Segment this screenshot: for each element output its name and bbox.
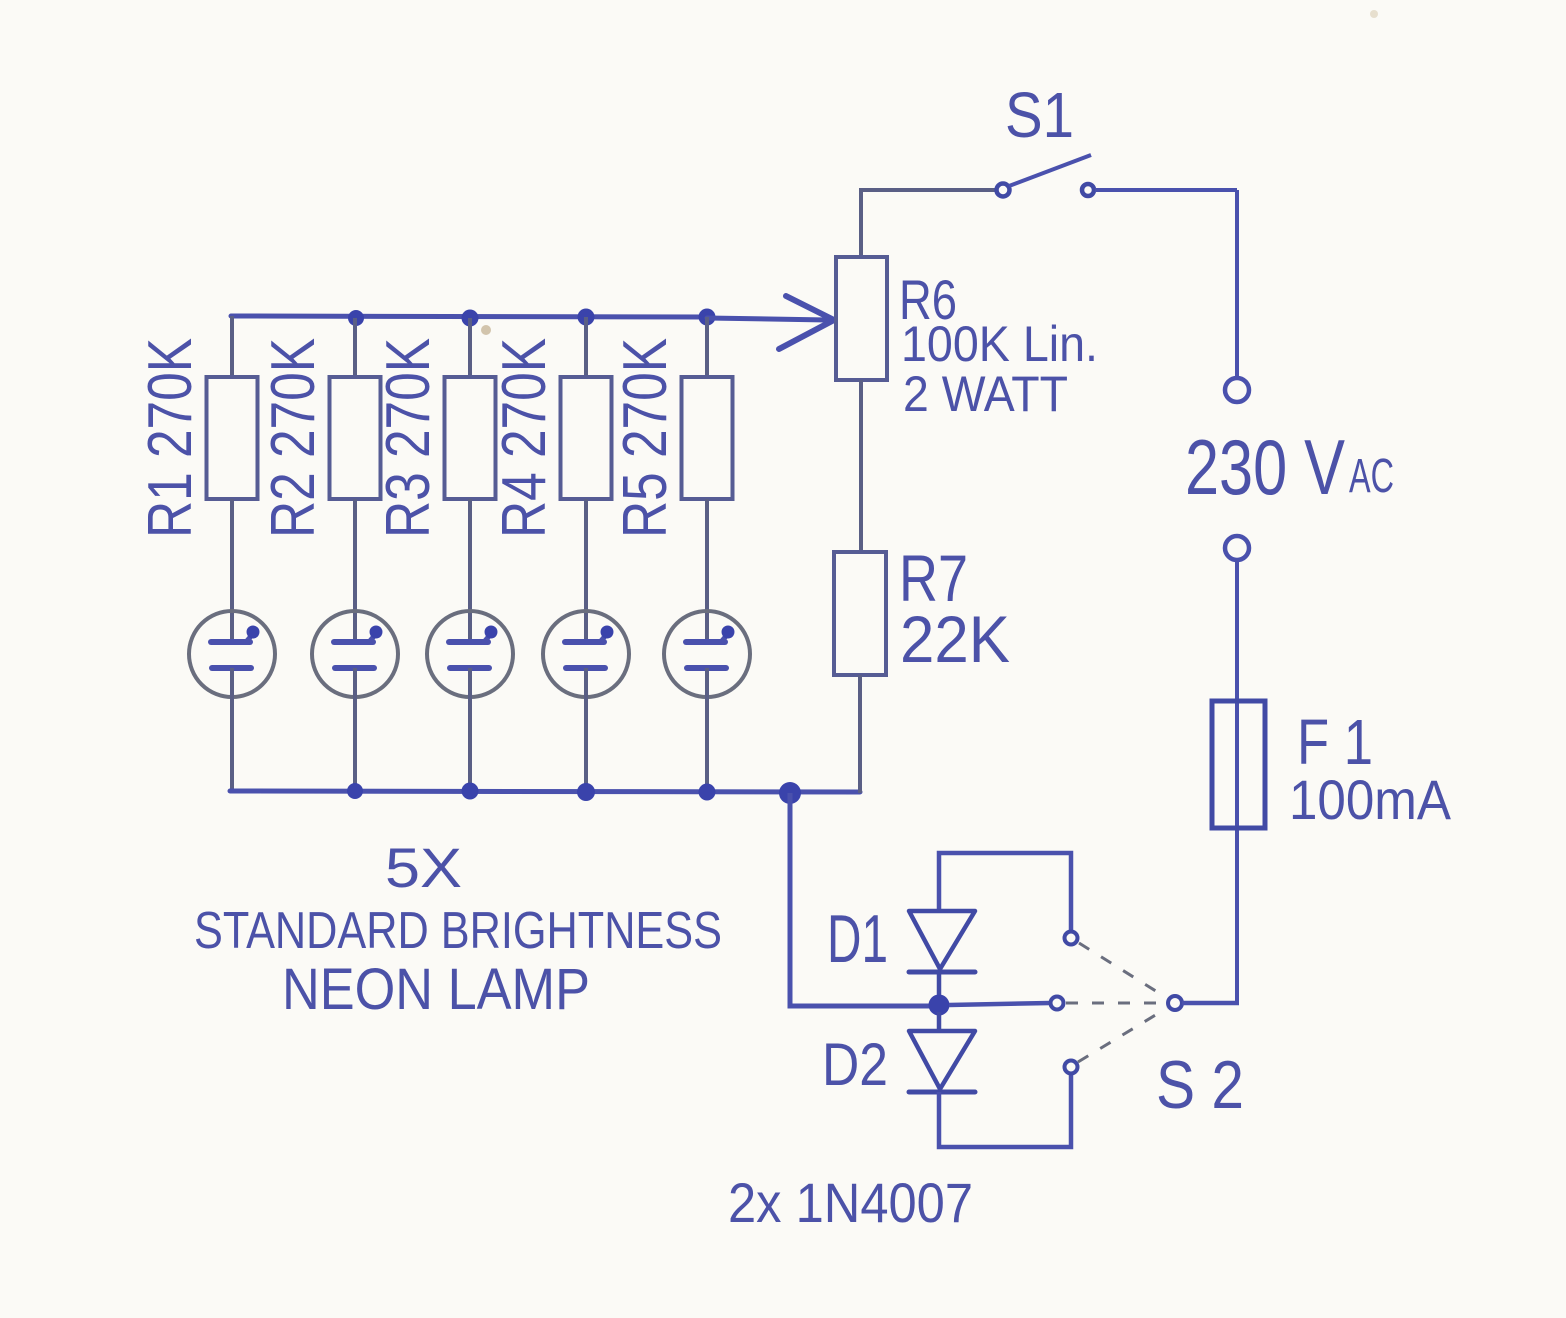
- node bus-branch: [779, 782, 801, 804]
- paper speck: [481, 325, 491, 335]
- node bus-R4: [578, 309, 595, 326]
- svg-text:R4 270K: R4 270K: [490, 338, 559, 538]
- resistor R3: [445, 377, 496, 499]
- wire lamp 2 to bottom bus: [353, 668, 357, 791]
- svg-text:S 2: S 2: [1156, 1047, 1244, 1123]
- fuse F1 body: [1212, 701, 1265, 828]
- diode D1: [909, 911, 975, 1000]
- node bus-lamp4: [577, 783, 595, 801]
- wire lower terminal to S2 common: [1235, 560, 1239, 1003]
- node bus-R5: [699, 309, 716, 326]
- node D1-D2 junction: [929, 995, 950, 1016]
- switch S2 contacts: [1051, 932, 1183, 1074]
- wire S1 to corner: [1095, 188, 1237, 192]
- wire branch down to diode node: [790, 793, 935, 1006]
- wire corner down to terminal: [1235, 190, 1239, 377]
- node bus-lamp3: [462, 783, 479, 800]
- resistor R2: [330, 377, 381, 499]
- resistor R4: [561, 377, 612, 499]
- svg-text:STANDARD BRIGHTNESS: STANDARD BRIGHTNESS: [194, 902, 722, 960]
- svg-text:100mA: 100mA: [1289, 768, 1452, 831]
- wire R4 to lamp 4: [584, 499, 588, 643]
- wire bottom bus: [230, 791, 860, 792]
- neon lamp 4: [543, 611, 629, 697]
- paper speck: [1370, 10, 1378, 18]
- wire top bus: [231, 316, 709, 317]
- wire lamp 5 to bottom bus: [705, 668, 709, 791]
- node bus-R2: [348, 310, 364, 326]
- wire R6 to R7: [859, 380, 863, 554]
- svg-text:2 WATT: 2 WATT: [903, 366, 1068, 422]
- svg-text:AC: AC: [1349, 450, 1394, 503]
- resistor R1: [207, 377, 258, 499]
- svg-text:5X: 5X: [385, 836, 462, 899]
- wire lamp 4 to bottom bus: [584, 668, 588, 791]
- resistor R7 body: [834, 552, 886, 675]
- wire R1 to lamp 1: [230, 499, 234, 643]
- svg-text:R2 270K: R2 270K: [259, 338, 328, 538]
- wire D2 to S2 lower contact: [939, 1074, 1071, 1147]
- svg-text:NEON LAMP: NEON LAMP: [282, 957, 590, 1022]
- node bus-lamp2: [347, 783, 363, 799]
- wire bus to R5: [705, 317, 709, 379]
- wire node to S2 middle contact: [949, 1003, 1050, 1005]
- S2 dashed lever lower: [1078, 1008, 1167, 1062]
- wire R5 to lamp 5: [705, 499, 709, 643]
- wire bus to R1: [230, 316, 234, 379]
- neon lamp 1: [189, 611, 275, 697]
- wire bus to R3: [468, 318, 472, 379]
- potentiometer R6 body: [836, 257, 887, 380]
- diode D2: [909, 1012, 975, 1092]
- wire lamp 1 to bottom bus: [230, 668, 234, 791]
- node bus-R3: [462, 310, 479, 327]
- svg-text:2x 1N4007: 2x 1N4007: [728, 1171, 973, 1234]
- wire diode top link: [939, 853, 1071, 932]
- svg-text:230 V: 230 V: [1185, 423, 1345, 511]
- R6 wiper arrowhead: [779, 296, 834, 349]
- svg-text:R3 270K: R3 270K: [374, 338, 443, 538]
- svg-text:R5 270K: R5 270K: [611, 338, 680, 538]
- resistor R5: [682, 377, 733, 499]
- wire S2 common to main line: [1182, 1001, 1239, 1006]
- terminal lower: [1225, 536, 1249, 560]
- svg-text:D1: D1: [827, 901, 888, 977]
- wire R2 to lamp 2: [353, 499, 357, 643]
- S2 dashed lever upper: [1079, 943, 1167, 998]
- wire R3 to lamp 3: [468, 499, 472, 643]
- neon lamp 2: [312, 611, 398, 697]
- svg-text:22K: 22K: [900, 602, 1010, 676]
- svg-text:R1 270K: R1 270K: [136, 338, 205, 538]
- svg-text:100K Lin.: 100K Lin.: [901, 316, 1098, 372]
- wire R7 to bottom bus: [858, 675, 862, 793]
- wire R6 wiper arm: [707, 318, 828, 320]
- node bus-lamp5: [699, 784, 716, 801]
- terminal upper: [1225, 378, 1249, 402]
- switch S1: [997, 155, 1095, 197]
- neon lamp 3: [427, 611, 513, 697]
- wire bus to R2: [353, 318, 357, 379]
- neon lamp 5: [664, 611, 750, 697]
- svg-text:D2: D2: [822, 1031, 888, 1098]
- svg-text:S1: S1: [1005, 79, 1074, 151]
- wire lamp 3 to bottom bus: [468, 668, 472, 791]
- wire R6 top to S1: [861, 190, 998, 259]
- S2 dashed lever middle: [1066, 1002, 1166, 1005]
- wire bus to R4: [584, 317, 588, 379]
